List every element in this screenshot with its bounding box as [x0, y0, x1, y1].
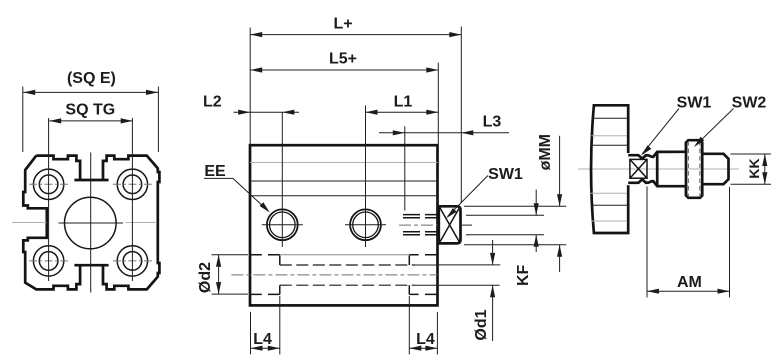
dimension AM — [647, 290, 730, 292]
inner line 3 — [250, 195, 438, 197]
L+ extension line right — [460, 27, 462, 204]
mounting hole top-left crosshair horizontal — [29, 183, 68, 185]
svg-text:AM: AM — [677, 274, 702, 291]
left view: cylinder body front face — [12, 70, 159, 293]
mounting hole top-left outer — [33, 169, 63, 199]
hidden thread line 3 — [403, 231, 438, 233]
svg-text:L4: L4 — [416, 331, 435, 348]
dimension line KF / d1 — [492, 240, 494, 265]
screw center line stub right of square — [462, 224, 472, 226]
slot center line left — [12, 222, 47, 224]
hole column center line right — [131, 118, 133, 281]
body outline (square profile with T-slots) — [23, 156, 159, 290]
svg-text:L1: L1 — [394, 94, 413, 111]
SW1 wrench square (right view) — [630, 159, 647, 178]
svg-text:Ød2: Ød2 — [197, 262, 214, 293]
port 1 inner circle — [270, 212, 296, 238]
mounting hole bottom-left crosshair horizontal — [29, 260, 68, 262]
Od2 ext line bottom — [212, 293, 249, 295]
svg-text:SW2: SW2 — [732, 94, 767, 111]
EE leader line — [204, 178, 267, 209]
dimension (SQ E) extension line left — [22, 87, 24, 153]
svg-text:KK: KK — [746, 158, 762, 178]
svg-text:SQ TG: SQ TG — [65, 101, 115, 118]
dimension (SQ E) line — [23, 91, 158, 93]
body outline — [591, 105, 628, 233]
screw center line — [399, 224, 438, 226]
inner line 1 (light) — [250, 162, 438, 164]
inner line 2 — [250, 180, 438, 182]
counterbore bottom edge right (hidden) — [409, 293, 437, 295]
port 2 outer circle — [350, 209, 381, 240]
bottom T-slot floor — [74, 264, 108, 267]
hidden thread line 2 — [403, 217, 438, 219]
KK ext line bottom — [731, 183, 772, 185]
L4 right ext line inner — [408, 296, 410, 354]
body inner line 5 — [591, 204, 627, 206]
dimension L5+ — [250, 69, 438, 71]
L4 left ext line outer — [250, 312, 252, 355]
MM ext line: square bottom — [464, 244, 566, 246]
AM ext line right — [729, 187, 731, 298]
dimension L+ — [250, 34, 461, 36]
central bore crosshair horizontal — [59, 222, 124, 224]
slot center line right — [126, 222, 156, 224]
dimension line outer (screw head) — [559, 136, 561, 207]
port 2 center vertical (extension of L1) — [365, 106, 367, 248]
SW1 square diagonal 2 — [630, 159, 647, 178]
hidden thread line 1 — [403, 214, 438, 216]
AM ext line left — [646, 187, 648, 298]
Od2 ext line top — [212, 254, 249, 256]
dimension L2 (outside arrows) — [234, 111, 300, 113]
port 1 crosshair horizontal — [262, 224, 303, 226]
L+ extension line left — [249, 28, 251, 145]
MM ext line: square top — [464, 205, 566, 207]
top T-slot floor — [74, 179, 108, 182]
dimension (SQ E) extension line right — [157, 87, 159, 153]
KF ext line bottom — [438, 284, 500, 286]
L3 extension line — [404, 126, 406, 210]
middle view: cylinder body side section — [197, 16, 566, 355]
collar hidden flat line 2 — [699, 141, 701, 197]
mounting hole bottom-right inner — [123, 252, 142, 271]
dimension KK — [764, 154, 766, 184]
counterbore top edge left (hidden) — [250, 254, 280, 256]
through hole top edge (hidden dashed) — [280, 264, 415, 266]
mounting hole center line — [231, 274, 437, 276]
body inner line 4 (light) — [591, 192, 628, 194]
mounting hole bottom-right crosshair horizontal — [113, 260, 152, 262]
right view: piston rod end — [578, 94, 771, 297]
counterbore top edge right (hidden) — [409, 254, 437, 256]
svg-text:SW1: SW1 — [677, 94, 712, 111]
mounting hole top-right outer — [117, 169, 147, 199]
body rectangle — [250, 145, 438, 305]
mounting hole bottom-right outer — [117, 246, 147, 276]
L4 left ext line inner — [279, 296, 281, 354]
mounting hole top-right crosshair horizontal — [113, 183, 152, 185]
mounting hole top-left inner — [39, 175, 58, 194]
counterbore end wall right — [408, 256, 410, 295]
svg-text:L2: L2 — [203, 94, 222, 111]
KK ext line top — [731, 153, 772, 155]
svg-text:EE: EE — [204, 163, 226, 180]
rod profile upper — [628, 140, 728, 169]
body inner line 1 — [592, 117, 627, 119]
svg-text:Ød1: Ød1 — [473, 309, 490, 340]
L4 right ext line outer — [436, 312, 438, 355]
rod profile lower — [628, 169, 728, 198]
hole column center line left (through both holes) — [48, 118, 50, 281]
svg-text:L+: L+ — [333, 16, 352, 33]
port 2 crosshair horizontal — [345, 224, 386, 226]
L5+ extension line right — [437, 63, 439, 145]
slot floor line between counterbores — [280, 254, 410, 256]
SW1 leader (right view) — [642, 109, 679, 154]
svg-text:L5+: L5+ — [329, 50, 357, 67]
dimension L1 — [366, 111, 439, 113]
central bore circle — [65, 197, 117, 249]
body inner line 3 — [591, 144, 627, 146]
svg-text:L4: L4 — [253, 331, 272, 348]
hidden thread line 4 — [403, 234, 438, 236]
dimension SQ TG line — [49, 120, 133, 122]
SW1 square diagonal 1 — [630, 159, 647, 178]
rod center line — [578, 168, 739, 170]
mounting hole bottom-left outer — [33, 246, 63, 276]
central bore crosshair vertical — [90, 153, 92, 293]
SW1 adjustment screw end square — [439, 206, 461, 243]
body inner line 2 (light) — [591, 135, 627, 137]
counterbore end wall left — [279, 256, 281, 295]
KF ext line top — [438, 264, 501, 266]
counterbore bottom edge left (hidden) — [250, 293, 280, 295]
dimension line oMM inner — [535, 190, 537, 216]
shoulder left edge — [656, 152, 659, 186]
mounting hole bottom-left inner — [39, 252, 58, 271]
svg-text:L3: L3 — [483, 113, 502, 130]
dimension L4 right — [409, 347, 437, 349]
SW1 leader line — [448, 176, 489, 217]
collar hidden flat line 1 — [687, 141, 689, 197]
SW1 square cross diagonal 1 — [440, 207, 460, 243]
svg-text:øMM: øMM — [537, 134, 554, 170]
dimension L3 (outside arrows) — [379, 132, 509, 134]
MM ext line: shank top — [466, 214, 544, 216]
port 2 inner circle — [353, 212, 379, 238]
port 1 outer circle — [267, 209, 298, 240]
dimension Od2 — [218, 255, 220, 294]
mounting hole top-right inner — [123, 175, 142, 194]
collar left edge — [685, 143, 688, 196]
svg-text:SW1: SW1 — [488, 166, 523, 183]
svg-text:KF: KF — [515, 265, 532, 287]
dimension L4 left — [251, 347, 280, 349]
through hole bottom edge (hidden dashed) — [280, 284, 415, 286]
SW1 square cross diagonal 2 — [440, 207, 460, 243]
port 1 center vertical (extension of L2) — [281, 112, 283, 247]
collar right edge — [701, 142, 704, 195]
body inner line 6 (light) — [592, 220, 627, 222]
svg-text:(SQ E): (SQ E) — [67, 70, 116, 87]
MM ext line: shank bottom — [466, 234, 544, 236]
SW2 leader — [696, 109, 733, 145]
